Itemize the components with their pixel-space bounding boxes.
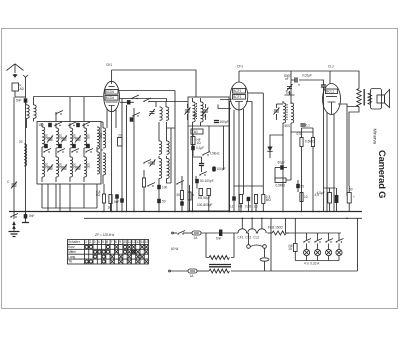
- svg-text:7: 7: [111, 240, 113, 244]
- antenna coil L1: [26, 103, 30, 125]
- svg-text:500: 500: [285, 124, 291, 128]
- resistor R10: [305, 128, 315, 212]
- junction dots bus: [25, 211, 348, 219]
- trimmer T9: [185, 104, 191, 120]
- svg-text:0,5MΩ: 0,5MΩ: [305, 140, 315, 144]
- cap C16: [245, 197, 251, 209]
- transformer secondary: [209, 269, 229, 273]
- osc coil La: [160, 107, 163, 120]
- antenna series unit K: [12, 83, 25, 97]
- svg-text:BCF1: BCF1: [233, 89, 241, 93]
- coil L6: [84, 128, 87, 148]
- coil value labels: [44, 133, 103, 169]
- resistor R5: [238, 195, 243, 209]
- trimmer T8: [150, 160, 156, 167]
- oscillator box: [188, 97, 229, 211]
- svg-text:60 W: 60 W: [171, 247, 178, 251]
- svg-text:100-800µF: 100-800µF: [197, 203, 213, 207]
- svg-text:100: 100: [162, 186, 168, 190]
- wire box top to detector coil: [101, 122, 103, 150]
- lamp L1: [303, 233, 311, 261]
- svg-text:160pF: 160pF: [220, 120, 229, 124]
- resistor Frist: [268, 226, 289, 236]
- T2 core: [286, 104, 288, 120]
- wire antenna to CK1: [26, 96, 103, 99]
- osc coil Lb: [166, 107, 169, 120]
- switch S6: [143, 98, 156, 102]
- svg-text:13: 13: [136, 240, 140, 244]
- IF transformer T2 coil A: [283, 101, 286, 123]
- band switch box: [37, 122, 101, 185]
- switch S18: [147, 183, 155, 187]
- resistor R2 pot 6.8k: [96, 184, 106, 212]
- grid cap C5: [120, 100, 134, 104]
- svg-text:BCL1: BCL1: [326, 90, 334, 94]
- resistor R12 box: [275, 178, 286, 188]
- svg-text:0,02µF: 0,02µF: [302, 74, 312, 78]
- svg-text:7,5kHz: 7,5kHz: [210, 152, 220, 156]
- resistor R4 HF: [191, 137, 201, 146]
- svg-text:· CF1: · CF1: [235, 65, 243, 69]
- switch S15: [68, 122, 76, 126]
- svg-text:9: 9: [119, 240, 121, 244]
- svg-text:Camerad G: Camerad G: [377, 150, 388, 198]
- svg-text:BCD6: BCD6: [106, 96, 115, 100]
- coil L12 left tall: [19, 140, 27, 166]
- osc transformer upper pair: [159, 141, 169, 154]
- svg-text:000: 000: [58, 134, 62, 140]
- svg-text:10: 10: [304, 195, 308, 199]
- output transformer primary: [357, 86, 361, 107]
- trimmer T6: [75, 165, 81, 172]
- switch S14: [54, 122, 62, 126]
- resistor R16 cathode: [142, 170, 145, 212]
- coil L5: [70, 128, 73, 148]
- switch S5: [131, 95, 139, 99]
- switch S1: [43, 149, 51, 153]
- svg-text:25: 25: [289, 247, 293, 251]
- svg-text:5nF: 5nF: [114, 200, 120, 204]
- wire osc top: [156, 102, 188, 108]
- resistor R8: [248, 93, 271, 212]
- transformer feed wires: [206, 233, 234, 258]
- resistor R9: [297, 128, 304, 212]
- svg-text:5nF: 5nF: [216, 237, 222, 241]
- svg-text:15: 15: [145, 240, 149, 244]
- IF transformer T1 coil A: [193, 98, 196, 122]
- svg-text:Kurz: Kurz: [68, 245, 75, 249]
- trimmer T10: [203, 104, 209, 120]
- svg-text:5nF: 5nF: [29, 214, 35, 218]
- screen bypass wires CF1: [230, 102, 253, 212]
- svg-text:50: 50: [177, 193, 181, 197]
- svg-text:kΩ: kΩ: [96, 193, 101, 197]
- svg-text:2: 2: [89, 240, 91, 244]
- tube CF1: [230, 65, 248, 111]
- cap C27: [296, 180, 304, 192]
- wire avc: [291, 128, 313, 132]
- svg-text:150: 150: [38, 123, 44, 127]
- cap C9: [188, 185, 195, 212]
- wire to lamp bus: [286, 232, 341, 234]
- trimmer T5: [61, 165, 67, 172]
- switch S2: [57, 149, 65, 153]
- svg-text:500: 500: [193, 112, 197, 118]
- wires R12: [275, 132, 291, 180]
- svg-text:nF: nF: [285, 77, 289, 81]
- cap C19 0.02uF: [302, 74, 326, 189]
- antenna: [7, 64, 28, 78]
- osc transformer lower pair: [159, 158, 169, 178]
- svg-text:TKo: TKo: [286, 91, 292, 95]
- ground arrow: [12, 221, 16, 229]
- cap C12: [191, 146, 204, 150]
- wires osc coils: [159, 122, 171, 212]
- screen wire CK1: [119, 99, 167, 102]
- svg-text:BCD6: BCD6: [106, 90, 115, 94]
- T1 core: [196, 103, 198, 119]
- tube CK1: [104, 63, 120, 112]
- switch S3: [71, 149, 79, 153]
- tuning capacitor C var: [7, 97, 17, 212]
- bottom wire to lamp box: [231, 270, 358, 272]
- interference cap C21: [216, 230, 222, 241]
- main bus 2: [84, 217, 362, 219]
- svg-text:CK1: CK1: [106, 63, 112, 67]
- trimmer T3: [75, 136, 81, 143]
- svg-text:0,1: 0,1: [229, 205, 234, 209]
- svg-text:1: 1: [85, 240, 87, 244]
- coil L8: [42, 157, 45, 177]
- band table: [68, 240, 149, 265]
- svg-text:100pF: 100pF: [217, 167, 226, 171]
- trimmer T12 TKo: [286, 84, 293, 95]
- box component TKD: [191, 129, 203, 134]
- tube CL2: [323, 65, 341, 115]
- svg-text:14: 14: [141, 240, 145, 244]
- resistor R14 NE: [286, 218, 298, 260]
- diode D1: [267, 140, 272, 158]
- switch S10 T-SW: [202, 152, 220, 156]
- transformer core: [209, 265, 231, 267]
- svg-text:+: +: [353, 195, 355, 199]
- svg-text:000: 000: [86, 134, 90, 140]
- output transformer secondary: [368, 93, 372, 104]
- svg-text:00: 00: [19, 140, 23, 144]
- svg-text:6: 6: [106, 240, 108, 244]
- volume pot P1: [118, 134, 123, 147]
- wires in osc box: [193, 126, 223, 212]
- svg-text:50: 50: [162, 200, 166, 204]
- wires under CK1: [107, 109, 116, 212]
- wire T1 down: [192, 122, 194, 212]
- lamp box right edge: [357, 218, 359, 271]
- transformer core: [363, 89, 365, 106]
- wires T2 down: [270, 123, 291, 212]
- coil L10: [70, 157, 73, 177]
- svg-text:000: 000: [99, 133, 103, 139]
- svg-text:500: 500: [202, 112, 206, 118]
- cap C18 5000pF: [284, 74, 297, 83]
- cap 160pF: [214, 120, 229, 124]
- T1 labels: [193, 112, 207, 118]
- svg-text:20: 20: [118, 134, 122, 138]
- electrolytic cap C22: [317, 188, 336, 212]
- switch S16: [82, 122, 90, 126]
- svg-text:0,5: 0,5: [297, 132, 302, 136]
- cap C14 100pF: [212, 167, 225, 171]
- lamp L4: [336, 233, 344, 261]
- coil L3: [38, 123, 45, 147]
- svg-text:0,1: 0,1: [306, 124, 311, 128]
- lamp common wire: [295, 260, 339, 262]
- trimmer T2: [61, 136, 67, 143]
- svg-text:000: 000: [44, 134, 48, 140]
- node join antenna coils: [26, 125, 28, 128]
- stubs box top: [56, 97, 84, 122]
- ground symbol left: [9, 225, 20, 237]
- coil L7 tall right: [97, 127, 100, 174]
- svg-text:ZF = 128 kHz: ZF = 128 kHz: [94, 233, 115, 237]
- cap C11: [120, 198, 124, 202]
- svg-text:MΩ: MΩ: [266, 198, 272, 202]
- svg-text:10: 10: [124, 240, 128, 244]
- cap C17 60uF: [275, 161, 287, 170]
- wire left vertical to bus: [25, 103, 27, 212]
- trimmer T1: [47, 136, 53, 143]
- wire into T2: [290, 71, 292, 104]
- heater winding: [238, 229, 267, 240]
- top bus from CK1: [111, 70, 196, 97]
- svg-text:50-100pF: 50-100pF: [200, 179, 214, 183]
- svg-text:12: 12: [132, 240, 136, 244]
- svg-text:4 V, 0,32 A: 4 V, 0,32 A: [304, 262, 320, 266]
- switch S11: [199, 172, 207, 176]
- cap C10: [114, 194, 120, 211]
- svg-text:11: 11: [128, 240, 132, 244]
- trimmer T11: [274, 104, 284, 120]
- coil L4: [56, 128, 59, 148]
- component 1A 5A: [198, 189, 211, 201]
- resistor R3: [108, 195, 113, 212]
- cap blobs box: [44, 123, 90, 148]
- link oval: [260, 258, 269, 271]
- svg-text:TkD: TkD: [192, 130, 199, 134]
- wire antenna drop: [25, 78, 27, 98]
- wire heater to frist: [267, 232, 272, 234]
- mains terminal top: [172, 232, 177, 234]
- wire T1 to grid CF1: [201, 100, 232, 127]
- svg-text:5nF: 5nF: [16, 99, 22, 103]
- resistor R13: [300, 193, 308, 202]
- capacitor 5nF antenna: [16, 98, 27, 102]
- electrolytic cap C23: [335, 188, 339, 212]
- wire box to bus: [42, 184, 97, 212]
- svg-text:000: 000: [72, 134, 76, 140]
- cap C6: [130, 117, 134, 121]
- antenna coil L2: [34, 97, 37, 122]
- coil L11: [84, 157, 87, 177]
- main ground bus 1: [9, 211, 362, 213]
- lamp L2: [314, 233, 322, 261]
- svg-text:Lang: Lang: [68, 255, 75, 259]
- resistor R1: [177, 176, 184, 212]
- switch S17: [55, 111, 63, 115]
- svg-text:Frist 150Ω: Frist 150Ω: [268, 226, 283, 230]
- transformer primary: [209, 256, 229, 260]
- wires in band box: [42, 123, 97, 182]
- svg-text:60µF: 60µF: [278, 161, 285, 165]
- cap C26: [229, 196, 236, 208]
- switch S7: [132, 113, 140, 117]
- top bus CF1 to right: [239, 71, 359, 86]
- svg-text:3: 3: [94, 240, 96, 244]
- svg-text:BCF1: BCF1: [233, 95, 241, 99]
- switch S9: [176, 181, 184, 185]
- svg-text:65: 65: [301, 185, 305, 189]
- cap C13: [199, 157, 204, 172]
- cap C15: [195, 179, 213, 183]
- svg-text:Minerva: Minerva: [373, 129, 378, 145]
- svg-text:AD: AD: [20, 87, 25, 91]
- fuse F2 1A: [188, 269, 209, 278]
- fuse F1 1A: [192, 231, 238, 240]
- trimmer T7: [149, 109, 155, 116]
- wires under CF1: [234, 109, 263, 212]
- voltage link circles: [247, 233, 267, 257]
- cap C20 5nF to ground: [22, 212, 35, 223]
- svg-text:1Ω: 1Ω: [197, 141, 202, 145]
- padder cap C8: [157, 199, 166, 204]
- wire osc out: [167, 128, 176, 212]
- anode wire CK1: [119, 91, 175, 129]
- svg-text:1k: 1k: [108, 206, 112, 210]
- resistor R6: [254, 195, 259, 209]
- svg-text:Mittel: Mittel: [68, 250, 76, 254]
- switch S12 ground: [10, 212, 18, 220]
- wire transformer down: [349, 107, 359, 187]
- switch S8: [143, 160, 151, 164]
- wires osc: [122, 99, 134, 212]
- svg-text:0,5MΩ: 0,5MΩ: [276, 184, 286, 188]
- coil L13 detector: [103, 122, 106, 184]
- IF transformer T2 coil B: [291, 103, 294, 123]
- svg-text:5: 5: [102, 240, 104, 244]
- svg-text:Schalter: Schalter: [68, 240, 81, 244]
- svg-text:0,1µF: 0,1µF: [196, 146, 204, 150]
- wire right section down: [270, 218, 272, 271]
- mains terminal bottom: [169, 270, 188, 272]
- mains switch S13: [177, 231, 192, 235]
- trimmer T4: [47, 165, 53, 172]
- electrolytic cap C24: [347, 186, 355, 212]
- svg-text:4: 4: [98, 240, 100, 244]
- cap C25: [300, 124, 310, 128]
- padder cap C7: [157, 185, 167, 190]
- speaker: [371, 89, 390, 110]
- svg-text:CL2: CL2: [328, 65, 334, 69]
- T2 labels: [285, 124, 291, 128]
- lamp L3: [325, 233, 333, 261]
- heater feed wires: [242, 218, 262, 229]
- switch S4: [85, 149, 93, 153]
- wires CL2 region: [285, 80, 360, 212]
- coil L9: [56, 157, 59, 177]
- svg-text:8: 8: [115, 240, 117, 244]
- T1 shield box bottom: [188, 125, 229, 127]
- IF transformer T1 coil B: [201, 98, 204, 122]
